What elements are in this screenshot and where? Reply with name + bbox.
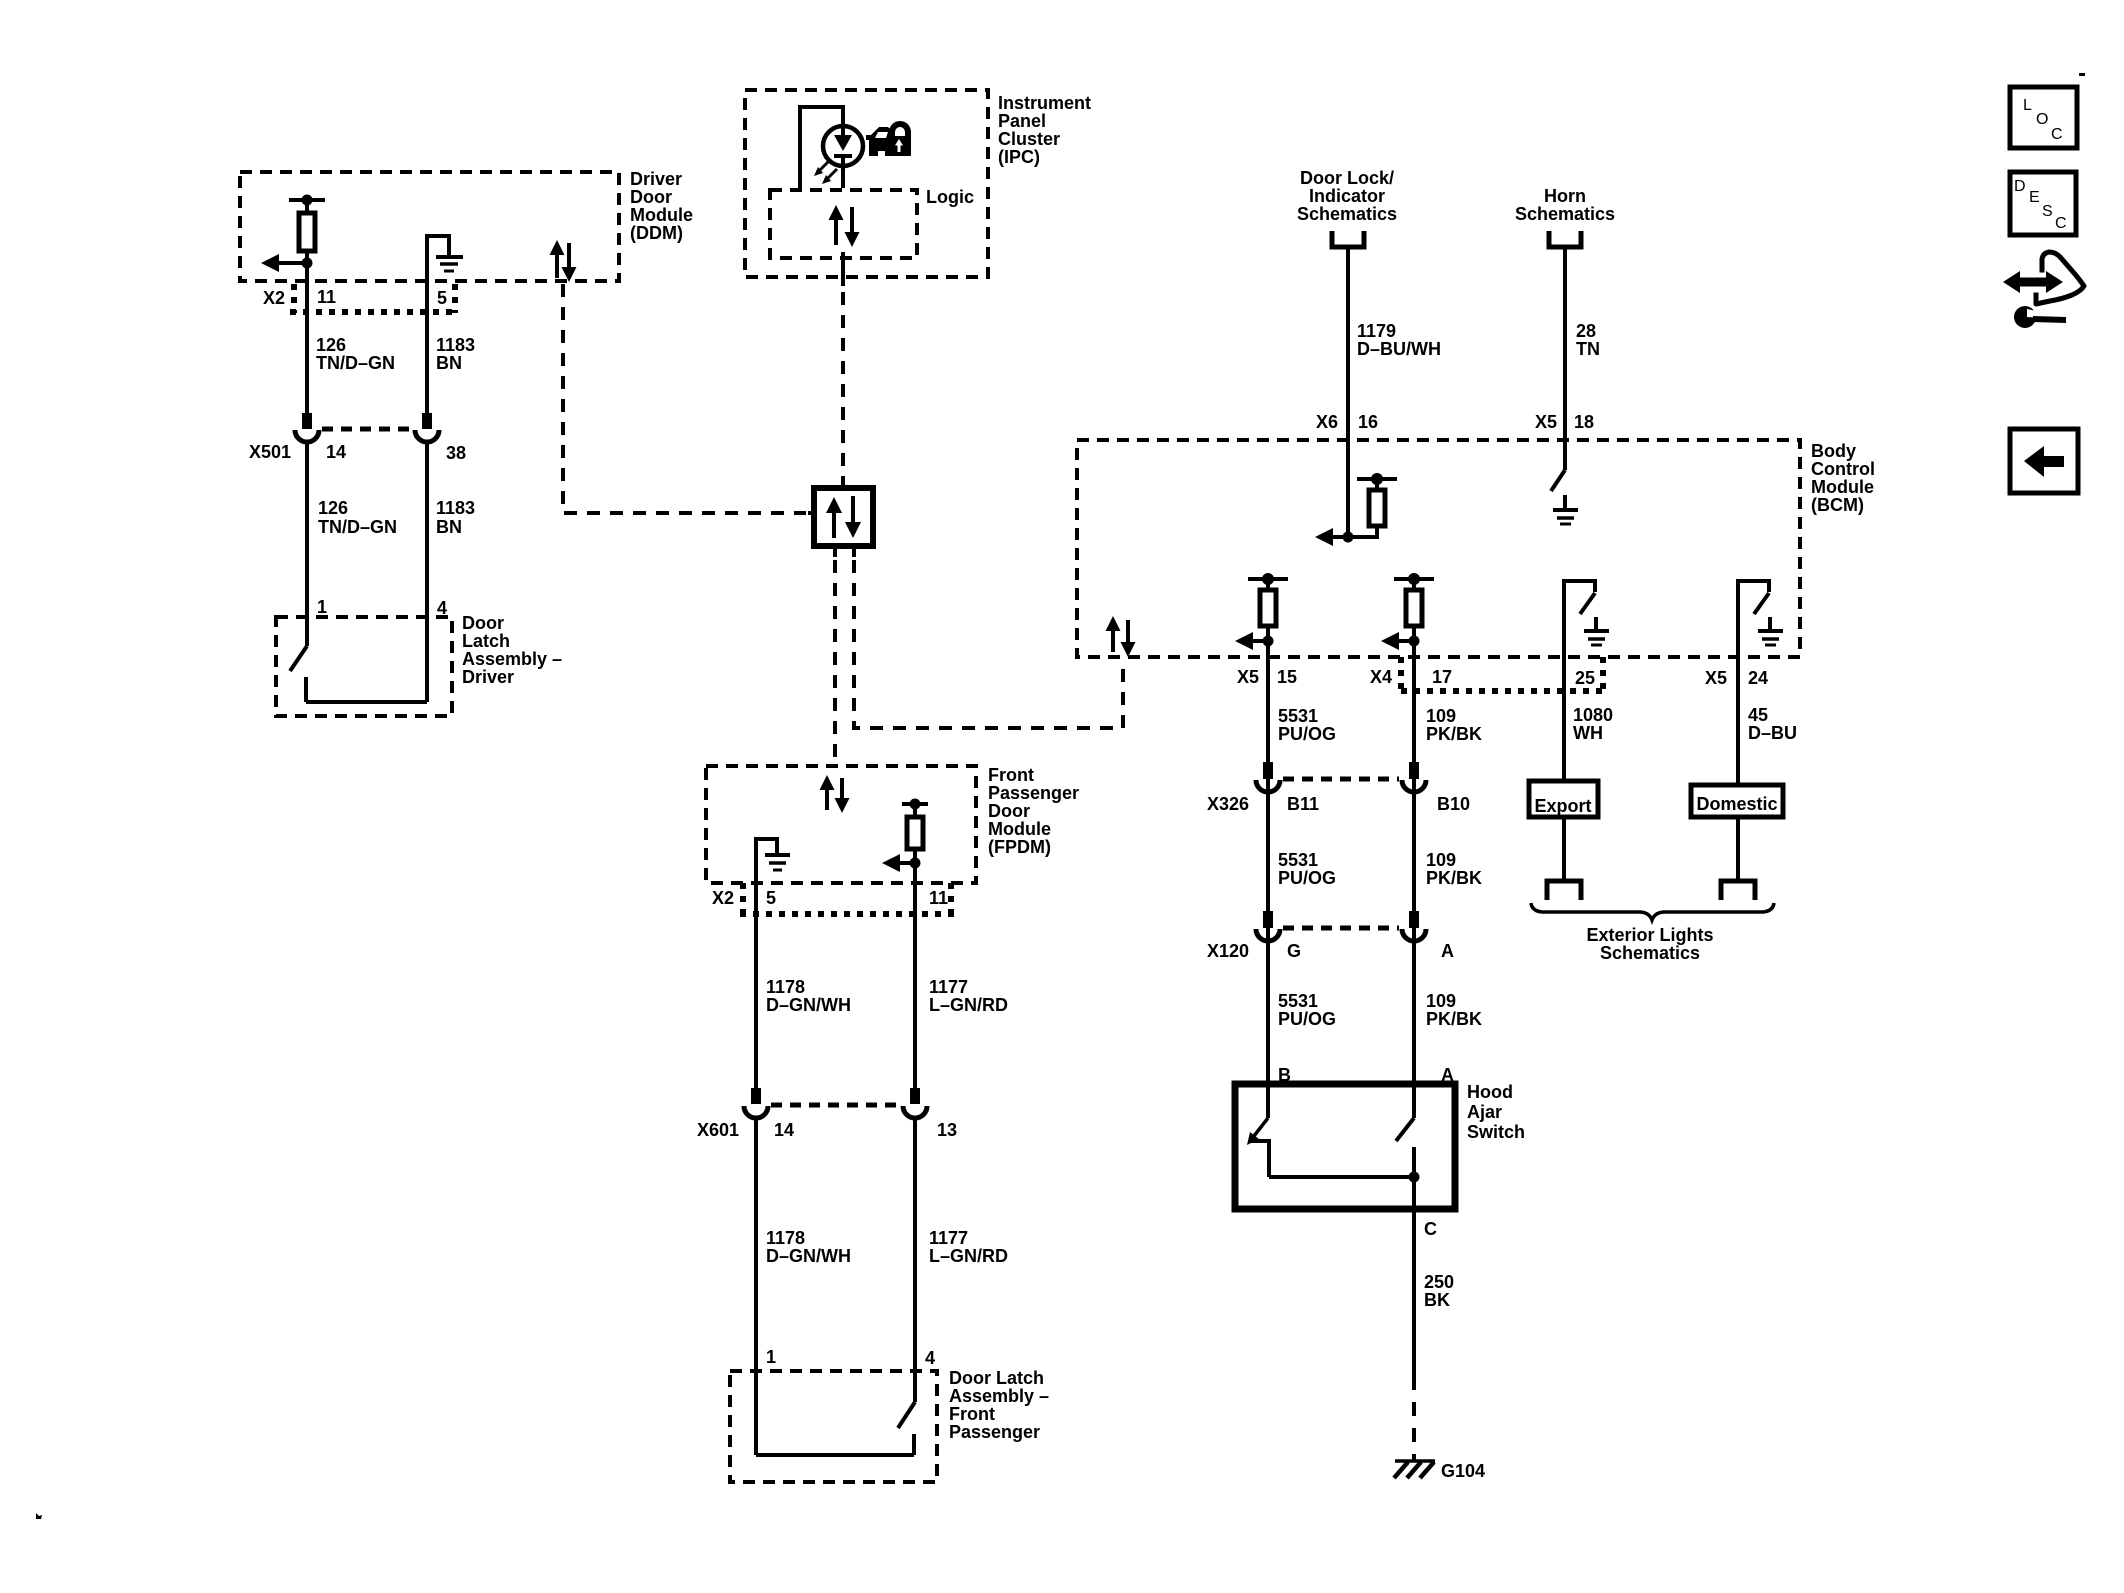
module DDM box (Driver Door Module) xyxy=(240,169,693,281)
svg-text:1183: 1183 xyxy=(436,498,475,518)
Domestic option box xyxy=(1691,785,1783,817)
svg-text:(FPDM): (FPDM) xyxy=(988,837,1051,857)
wire 28 TN (to BCM X5-18) xyxy=(1565,247,1600,470)
horn switch to ground in BCM xyxy=(1551,470,1578,524)
svg-text:X2: X2 xyxy=(263,288,285,308)
svg-text:PK/BK: PK/BK xyxy=(1426,1009,1482,1029)
svg-text:D–BU: D–BU xyxy=(1748,723,1797,743)
svg-text:TN/D–GN: TN/D–GN xyxy=(316,353,395,373)
wire 1179 D-BU/WH (to BCM X6-16) xyxy=(1348,247,1441,537)
LED indicator (security telltale) xyxy=(814,126,863,188)
up/down arrows at FPDM serial port xyxy=(820,775,850,813)
connector view icon (car outline, arrow, wrench) xyxy=(2003,252,2084,328)
pin X5 15 labels xyxy=(1237,667,1297,687)
serial data junction box xyxy=(808,477,873,557)
svg-text:A: A xyxy=(1441,941,1454,961)
wire LED feed loop inside IPC xyxy=(800,107,843,188)
svg-text:11: 11 xyxy=(929,888,948,908)
module IPC box (Instrument Panel Cluster) xyxy=(745,90,1091,277)
svg-text:Cluster: Cluster xyxy=(998,129,1060,149)
svg-text:WH: WH xyxy=(1573,723,1603,743)
svg-text:Exterior Lights: Exterior Lights xyxy=(1586,925,1713,945)
wire Export to terminal xyxy=(1562,817,1566,881)
svg-text:O: O xyxy=(2036,111,2048,128)
pin X5 24 labels xyxy=(1705,668,1768,688)
svg-text:18: 18 xyxy=(1574,412,1594,432)
wire 5531 PU/OG (X120-G to hood switch B) xyxy=(1278,991,1336,1029)
wire 126 TN/D-GN (DDM X2-11 to X501-14) xyxy=(307,263,395,413)
svg-text:D: D xyxy=(2014,178,2026,195)
ground symbol in FPDM xyxy=(756,839,790,883)
wire 5531 PU/OG (X326-B11 to X120-G) xyxy=(1278,850,1336,888)
svg-text:Control: Control xyxy=(1811,459,1875,479)
svg-text:Passenger: Passenger xyxy=(988,783,1079,803)
svg-text:15: 15 xyxy=(1277,667,1297,687)
wire 1177 L-GN/RD (X601-13 to latch pin 4) xyxy=(915,1118,1008,1402)
svg-text:X501: X501 xyxy=(249,442,291,462)
svg-text:Schematics: Schematics xyxy=(1297,204,1397,224)
Export option box xyxy=(1529,781,1598,817)
svg-text:C: C xyxy=(2051,126,2063,143)
svg-text:250: 250 xyxy=(1424,1272,1454,1292)
signal arrow and junction on 1179 in BCM xyxy=(1315,528,1354,546)
svg-text:109: 109 xyxy=(1426,850,1456,870)
svg-text:L–GN/RD: L–GN/RD xyxy=(929,995,1008,1015)
signal arrow and junction in FPDM xyxy=(882,854,921,872)
connector X326 (pins B11 and B10) xyxy=(1207,762,1470,814)
pin X4 17 labels xyxy=(1370,667,1452,687)
svg-text:BN: BN xyxy=(436,353,462,373)
svg-text:4: 4 xyxy=(925,1348,935,1368)
svg-text:1: 1 xyxy=(766,1347,776,1367)
wire 109 PK/BK (BCM X4-17 to X326-B10) xyxy=(1414,641,1482,1118)
svg-text:Assembly –: Assembly – xyxy=(462,649,562,669)
dashed serial wire from junction to BCM xyxy=(854,560,1123,728)
svg-text:(BCM): (BCM) xyxy=(1811,495,1864,515)
wire 109 PK/BK (X120-A to hood switch A) xyxy=(1426,991,1482,1029)
svg-text:X326: X326 xyxy=(1207,794,1249,814)
stray mark top right xyxy=(2079,73,2085,76)
pin X6 16 labels xyxy=(1316,412,1378,432)
svg-text:Hood: Hood xyxy=(1467,1082,1513,1102)
svg-text:Module: Module xyxy=(630,205,693,225)
svg-text:S: S xyxy=(2042,203,2053,220)
svg-text:Module: Module xyxy=(1811,477,1874,497)
svg-text:109: 109 xyxy=(1426,991,1456,1011)
signal arrow and junction at pin X5-15 xyxy=(1235,632,1274,650)
pin X5 18 labels xyxy=(1535,412,1594,432)
svg-text:Ajar: Ajar xyxy=(1467,1102,1502,1122)
svg-text:B11: B11 xyxy=(1287,794,1319,814)
switch to ground at BCM pin X5-24 xyxy=(1738,581,1783,657)
svg-text:X5: X5 xyxy=(1237,667,1259,687)
svg-text:Switch: Switch xyxy=(1467,1122,1525,1142)
stray mark bottom left xyxy=(36,1513,42,1519)
back arrow icon xyxy=(2010,429,2078,493)
svg-text:Domestic: Domestic xyxy=(1696,794,1777,814)
hood switch contact A xyxy=(1396,942,1414,1177)
svg-text:BK: BK xyxy=(1424,1290,1450,1310)
svg-text:TN: TN xyxy=(1576,339,1600,359)
svg-text:BN: BN xyxy=(436,517,462,537)
module BCM box (Body Control Module) xyxy=(1077,440,1875,657)
svg-text:G104: G104 xyxy=(1441,1461,1485,1481)
svg-text:1183: 1183 xyxy=(436,335,475,355)
ajar switch in driver door latch xyxy=(290,646,427,702)
ground symbol in DDM xyxy=(427,236,463,286)
wire 1178 D-GN/WH (X601-14 to latch pin 1) xyxy=(756,1118,851,1455)
DESC navigation icon xyxy=(2010,172,2076,235)
Door Latch Assembly Driver box xyxy=(276,613,562,716)
svg-text:C: C xyxy=(1424,1219,1437,1239)
connector box for pins 17 and 25 xyxy=(1401,657,1604,692)
signal arrow and junction in DDM xyxy=(261,254,313,272)
svg-text:5: 5 xyxy=(766,888,776,908)
svg-text:PK/BK: PK/BK xyxy=(1426,868,1482,888)
svg-text:L–GN/RD: L–GN/RD xyxy=(929,1246,1008,1266)
wire from IPC logic to junction (serial data) xyxy=(841,252,845,481)
svg-text:D–GN/WH: D–GN/WH xyxy=(766,995,851,1015)
svg-text:B10: B10 xyxy=(1437,794,1470,814)
svg-text:5531: 5531 xyxy=(1278,850,1318,870)
svg-text:PU/OG: PU/OG xyxy=(1278,724,1336,744)
svg-text:1178: 1178 xyxy=(766,1228,805,1248)
svg-text:X2: X2 xyxy=(712,888,734,908)
dashed serial wire from DDM to junction xyxy=(563,284,806,513)
svg-text:38: 38 xyxy=(446,443,466,463)
common rail and junction in hood switch xyxy=(1269,1172,1420,1183)
connector X501 (pins 14 and 38) xyxy=(249,413,466,463)
wire 1183 BN (X501-38 to door latch pin 4) xyxy=(427,442,475,702)
svg-text:126: 126 xyxy=(316,335,346,355)
svg-text:11: 11 xyxy=(317,287,336,307)
wire 126 TN/D-GN (X501-14 to door latch pin 1) xyxy=(307,442,397,646)
svg-text:24: 24 xyxy=(1748,668,1768,688)
terminal symbol under Domestic xyxy=(1721,881,1755,900)
svg-text:Door: Door xyxy=(988,801,1030,821)
chassis ground G104 xyxy=(1394,1461,1485,1481)
wire 45 D-BU (BCM X5-24 to Domestic) xyxy=(1738,657,1797,785)
svg-text:Door Latch: Door Latch xyxy=(949,1368,1044,1388)
svg-text:28: 28 xyxy=(1576,321,1596,341)
connector X601 (pins 14 and 13) xyxy=(697,1088,957,1140)
svg-text:TN/D–GN: TN/D–GN xyxy=(318,517,397,537)
signal arrow and junction at pin X4-17 xyxy=(1381,632,1420,650)
LOC navigation icon xyxy=(2010,87,2077,148)
up/down arrows in logic box xyxy=(829,205,860,247)
wire 1177 L-GN/RD (FPDM X2-11 to X601-13) xyxy=(915,863,1008,1088)
switch to ground at BCM pin 25 xyxy=(1564,581,1609,657)
wire 1178 D-GN/WH (FPDM X2-5 to X601-14) xyxy=(756,883,851,1088)
svg-text:Body: Body xyxy=(1811,441,1856,461)
svg-text:1179: 1179 xyxy=(1357,321,1396,341)
svg-text:X601: X601 xyxy=(697,1120,739,1140)
svg-text:PU/OG: PU/OG xyxy=(1278,1009,1336,1029)
resistor branch at BCM pin X4-17 xyxy=(1394,573,1434,641)
up/down arrows at BCM serial port xyxy=(1106,616,1136,657)
svg-text:Indicator: Indicator xyxy=(1309,186,1385,206)
up/down arrows at DDM serial port xyxy=(550,240,577,282)
svg-text:25: 25 xyxy=(1575,668,1595,688)
wire Domestic to terminal xyxy=(1736,817,1740,881)
svg-text:126: 126 xyxy=(318,498,348,518)
wire 250 BK (hood switch C to G104) xyxy=(1414,1177,1454,1460)
svg-text:X5: X5 xyxy=(1705,668,1727,688)
svg-text:PK/BK: PK/BK xyxy=(1426,724,1482,744)
hood switch contact B (with arrow blade) xyxy=(1247,942,1269,1177)
svg-text:D–GN/WH: D–GN/WH xyxy=(766,1246,851,1266)
resistor branch on 1179 input in BCM xyxy=(1348,473,1397,537)
terminal symbol under Export xyxy=(1547,881,1581,900)
svg-text:C: C xyxy=(2055,215,2067,232)
svg-text:Schematics: Schematics xyxy=(1515,204,1615,224)
svg-text:G: G xyxy=(1287,941,1301,961)
off-page reference Door Lock/Indicator Schematics xyxy=(1297,168,1397,247)
svg-text:L: L xyxy=(2023,97,2032,114)
svg-text:Assembly –: Assembly – xyxy=(949,1386,1049,1406)
svg-text:17: 17 xyxy=(1432,667,1452,687)
svg-text:Export: Export xyxy=(1534,796,1591,816)
ajar switch in front passenger latch xyxy=(756,1402,915,1455)
svg-text:X120: X120 xyxy=(1207,941,1249,961)
svg-text:X5: X5 xyxy=(1535,412,1557,432)
svg-text:1080: 1080 xyxy=(1573,705,1613,725)
resistor in FPDM xyxy=(902,799,928,864)
svg-text:14: 14 xyxy=(774,1120,794,1140)
off-page reference Horn Schematics xyxy=(1515,186,1615,247)
svg-text:1177: 1177 xyxy=(929,1228,968,1248)
resistor in DDM (lock status pull-up) xyxy=(289,195,325,264)
svg-text:45: 45 xyxy=(1748,705,1768,725)
wire 109 PK/BK (X326-B10 to X120-A) xyxy=(1426,850,1482,888)
svg-text:Passenger: Passenger xyxy=(949,1422,1040,1442)
svg-text:Driver: Driver xyxy=(630,169,682,189)
module FPDM box (Front Passenger Door Module) xyxy=(706,765,1079,883)
connector X120 (pins G and A) xyxy=(1207,911,1454,961)
svg-text:D–BU/WH: D–BU/WH xyxy=(1357,339,1441,359)
connector X2 of DDM (pins 11 and 5) xyxy=(263,284,459,313)
svg-text:Horn: Horn xyxy=(1544,186,1586,206)
svg-text:5531: 5531 xyxy=(1278,991,1318,1011)
svg-text:13: 13 xyxy=(937,1120,957,1140)
svg-text:Schematics: Schematics xyxy=(1600,943,1700,963)
svg-text:Module: Module xyxy=(988,819,1051,839)
brace Exterior Lights Schematics xyxy=(1531,903,1774,963)
svg-text:Latch: Latch xyxy=(462,631,510,651)
logic box inside IPC xyxy=(770,187,974,258)
svg-text:X4: X4 xyxy=(1370,667,1392,687)
svg-text:16: 16 xyxy=(1358,412,1378,432)
svg-text:5: 5 xyxy=(437,288,447,308)
svg-text:X6: X6 xyxy=(1316,412,1338,432)
svg-text:1178: 1178 xyxy=(766,977,805,997)
svg-text:Instrument: Instrument xyxy=(998,93,1091,113)
svg-text:Front: Front xyxy=(949,1404,995,1424)
svg-text:Door Lock/: Door Lock/ xyxy=(1300,168,1394,188)
resistor branch at BCM pin X5-15 xyxy=(1248,573,1288,641)
svg-text:5531: 5531 xyxy=(1278,706,1318,726)
car with lock icon xyxy=(866,124,911,156)
svg-text:109: 109 xyxy=(1426,706,1456,726)
svg-text:PU/OG: PU/OG xyxy=(1278,868,1336,888)
connector X2 of FPDM (pins 5 and 11) xyxy=(712,883,955,915)
svg-text:(IPC): (IPC) xyxy=(998,147,1040,167)
svg-text:Logic: Logic xyxy=(926,187,974,207)
svg-text:E: E xyxy=(2029,189,2040,206)
wire 1183 BN (DDM X2-5 to X501-38) xyxy=(427,236,475,413)
svg-text:(DDM): (DDM) xyxy=(630,223,683,243)
Door Latch Assembly Front Passenger box xyxy=(730,1368,1049,1482)
svg-text:14: 14 xyxy=(326,442,346,462)
svg-text:Panel: Panel xyxy=(998,111,1046,131)
Hood Ajar Switch box xyxy=(1235,1082,1525,1209)
dashed serial wire from junction to FPDM xyxy=(833,560,837,764)
svg-text:Door: Door xyxy=(630,187,672,207)
svg-text:1177: 1177 xyxy=(929,977,968,997)
svg-text:Front: Front xyxy=(988,765,1034,785)
wire 1080 WH (BCM 25 to Export) xyxy=(1564,657,1613,781)
wire 5531 PU/OG (BCM X5-15 to X326-B11) xyxy=(1268,641,1336,1087)
svg-text:Door: Door xyxy=(462,613,504,633)
svg-text:1: 1 xyxy=(317,597,327,617)
svg-text:Driver: Driver xyxy=(462,667,514,687)
